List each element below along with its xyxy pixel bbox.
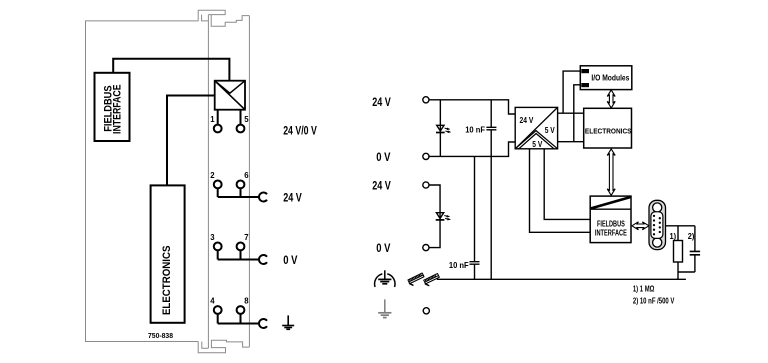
top DIN-rail clip profile	[198, 10, 249, 26]
wire connector to RC network	[666, 225, 695, 227]
cap C2 plates	[470, 262, 480, 265]
fieldbus interface box	[590, 196, 631, 243]
earth symbol row 4 label	[282, 315, 294, 329]
electronics box	[584, 108, 632, 148]
terminal 0V field	[423, 245, 429, 251]
wire ELECTRONICS to DC/DC	[167, 96, 215, 186]
svg-text:8: 8	[244, 296, 249, 305]
terminal 5	[237, 125, 245, 133]
LED1 branch wire	[439, 100, 441, 157]
wire dcdc 5V to electronics upper	[558, 112, 584, 114]
svg-text:0 V: 0 V	[283, 253, 298, 267]
svg-text:2: 2	[210, 171, 215, 180]
device inner wall right	[248, 16, 250, 348]
terminal 24V field	[423, 182, 429, 188]
earth rail	[437, 278, 686, 280]
wire to resistor	[677, 226, 679, 241]
terminal 7	[237, 243, 245, 251]
isolation band	[590, 208, 631, 210]
wire terminals 2/6 to clamp	[218, 188, 260, 197]
svg-text:3: 3	[210, 233, 215, 242]
I/O modules box	[580, 66, 632, 90]
terminal 3	[214, 243, 222, 251]
arrow I/O to electronics	[607, 90, 615, 108]
svg-text:24 V: 24 V	[283, 190, 302, 204]
resistor 1)	[674, 241, 683, 263]
wire terminals 3/7 to clamp	[218, 250, 260, 259]
pins	[653, 215, 661, 236]
svg-text:ELECTRONICS: ELECTRONICS	[585, 126, 632, 135]
LED D1	[436, 125, 451, 132]
24V rail	[429, 100, 515, 114]
wire dcdc to fieldbus lower	[530, 149, 591, 233]
wire FB to DC/DC	[113, 59, 229, 81]
svg-text:1: 1	[210, 115, 215, 124]
svg-text:FIELDBUS: FIELDBUS	[597, 219, 625, 228]
wire resistor to earth rail	[677, 262, 679, 279]
top clip notch	[202, 15, 212, 21]
svg-text:INTERFACE: INTERFACE	[595, 228, 627, 237]
field 24V wire to LED2	[429, 185, 440, 248]
cap C2 branch wire	[474, 156, 476, 279]
wire to I/O pin lower	[574, 85, 581, 142]
wire dcdc 5V to electronics lower	[558, 141, 584, 143]
cap 2) plates	[690, 251, 700, 254]
svg-text:24 V: 24 V	[372, 95, 391, 109]
svg-text:7: 7	[244, 233, 248, 242]
terminal 24V	[423, 97, 429, 103]
device body outline	[86, 21, 199, 342]
svg-text:24 V/0 V: 24 V/0 V	[283, 123, 317, 137]
wire cap upper	[694, 226, 696, 252]
terminal 8	[237, 306, 245, 314]
LED D2	[436, 213, 451, 220]
svg-text:750-838: 750-838	[148, 331, 173, 340]
svg-text:6: 6	[244, 171, 249, 180]
noise-free earth symbol	[375, 270, 395, 287]
svg-text:INTERFACE: INTERFACE	[112, 84, 124, 134]
svg-text:0 V: 0 V	[376, 241, 391, 255]
svg-text:ELECTRONICS: ELECTRONICS	[161, 246, 173, 316]
cap C1 branch wire	[490, 100, 492, 279]
svg-text:10 nF: 10 nF	[449, 260, 469, 270]
dc/dc converter block	[515, 107, 557, 148]
svg-text:5 V: 5 V	[545, 125, 555, 135]
fieldbus-interface box U-FB	[95, 73, 130, 141]
earth via rail symbol (grey)	[378, 299, 391, 317]
svg-text:5: 5	[244, 115, 249, 124]
wire RC bottom link	[678, 271, 695, 273]
clamp contact row 4	[259, 319, 267, 328]
terminal 6	[237, 181, 245, 189]
D-sub connector X1	[649, 200, 666, 249]
terminal 1	[214, 125, 222, 133]
I/O pin upper	[581, 69, 589, 73]
terminal 2	[214, 181, 222, 189]
svg-text:5 V: 5 V	[532, 139, 542, 149]
wire terminals 4/8 to clamp	[218, 314, 260, 324]
wire cap lower	[694, 255, 696, 272]
clamp contact row 3	[259, 255, 267, 264]
I/O pin lower	[581, 83, 589, 87]
arrow electronics to fieldbus	[607, 149, 615, 195]
wire dc/dc to terminal 1	[217, 110, 219, 125]
wire dcdc to fieldbus upper	[544, 149, 590, 220]
arrow fieldbus to connector	[632, 222, 649, 230]
clamp contact row 2	[259, 193, 267, 202]
device inner wall left	[207, 15, 209, 349]
terminal earth	[423, 308, 429, 314]
terminal 4	[214, 306, 222, 314]
wire dc/dc to terminal 5	[240, 110, 242, 125]
svg-text:24 V: 24 V	[520, 115, 534, 125]
dc/dc converter symbol	[215, 81, 245, 110]
terminal 0V	[423, 153, 429, 159]
bottom clip notch	[202, 342, 209, 349]
svg-text:2): 2)	[688, 232, 695, 241]
electronics box U-EL	[151, 185, 185, 322]
svg-text:2) 10 nF /500 V: 2) 10 nF /500 V	[633, 296, 675, 305]
bottom DIN-rail clip profile	[198, 340, 249, 352]
svg-text:I/O Modules: I/O Modules	[591, 73, 629, 82]
svg-text:1): 1)	[670, 232, 677, 241]
DIN rail 3D symbol	[408, 273, 439, 286]
wire to I/O pin upper	[563, 71, 580, 113]
label FIELDBUS INTERFACE (vertical)	[102, 84, 123, 134]
svg-text:10 nF: 10 nF	[465, 124, 485, 134]
svg-text:1) 1 MΩ: 1) 1 MΩ	[633, 284, 655, 293]
svg-text:24 V: 24 V	[372, 179, 391, 193]
0V rail	[429, 142, 515, 156]
cap C1 plates	[486, 127, 496, 130]
svg-text:4: 4	[210, 296, 215, 305]
svg-text:0 V: 0 V	[376, 150, 391, 164]
